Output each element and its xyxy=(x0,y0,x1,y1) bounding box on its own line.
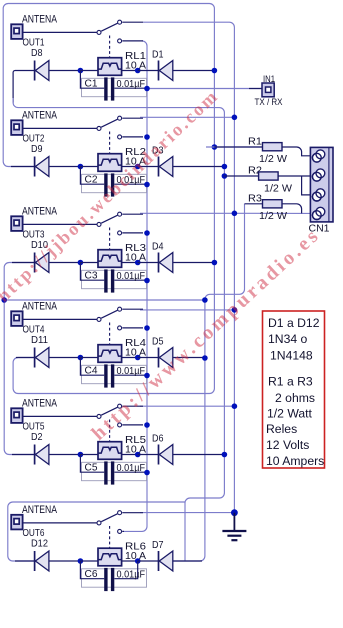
node relay coil left junction S3 xyxy=(78,260,84,266)
svg-text:1/2 W: 1/2 W xyxy=(259,153,287,165)
resistor R2 xyxy=(224,165,310,195)
svg-text:OUT4: OUT4 xyxy=(23,324,45,335)
diode D9 xyxy=(31,144,80,177)
svg-text:OUT2: OUT2 xyxy=(23,133,45,144)
capacitor C6 xyxy=(80,561,146,591)
svg-text:D7: D7 xyxy=(152,540,164,551)
node junctions on NO chain xyxy=(144,86,150,476)
switch SW2 (relay contacts) xyxy=(97,116,143,153)
connector IN1 (TX/RX) xyxy=(255,74,283,107)
svg-text:1/2 W: 1/2 W xyxy=(264,183,292,195)
capacitor C2 xyxy=(80,167,147,197)
relay RL6 coil xyxy=(80,542,146,566)
svg-text:ANTENA: ANTENA xyxy=(22,110,58,122)
svg-text:ANTENA: ANTENA xyxy=(22,206,58,218)
svg-text:0.01µF: 0.01µF xyxy=(117,366,146,377)
node junctions on bus C xyxy=(222,164,228,458)
node relay coil left junction S6 xyxy=(78,558,84,564)
wire connector OUT6 to switch pole xyxy=(23,522,97,524)
wire NC throw section 6 to bus B xyxy=(140,512,234,514)
svg-text:10 Ampers: 10 Ampers xyxy=(266,454,324,468)
svg-text:C5: C5 xyxy=(85,463,98,474)
svg-text:D1 a D12: D1 a D12 xyxy=(268,316,320,330)
node ANTENA OUT3 label xyxy=(22,206,58,241)
svg-text:D5: D5 xyxy=(152,337,164,348)
wire CN1 terminal 3 tap xyxy=(302,176,311,195)
svg-text:TX / RX: TX / RX xyxy=(255,97,283,107)
diode D4 xyxy=(138,242,215,273)
svg-text:1N34 o: 1N34 o xyxy=(268,332,308,346)
node relay coil right junction S3 xyxy=(135,260,141,266)
svg-text:0.01µF: 0.01µF xyxy=(117,569,146,580)
node ANTENA OUT6 label xyxy=(22,504,58,539)
diode D7 xyxy=(138,540,202,571)
wire top bus from D9 riser to bus A xyxy=(3,4,214,394)
svg-text:C3: C3 xyxy=(85,271,98,282)
node ANTENA OUT5 label xyxy=(22,398,58,433)
svg-text:OUT6: OUT6 xyxy=(23,528,45,539)
diode D1 xyxy=(138,50,215,81)
wire connector OUT3 to switch pole xyxy=(23,223,97,225)
svg-text:C4: C4 xyxy=(85,366,98,377)
svg-text:1/2 Watt: 1/2 Watt xyxy=(267,407,313,421)
wire D8 loop to bus C down to 185 riser xyxy=(13,71,224,562)
node relay coil right junction S1 xyxy=(135,68,141,74)
diode D5 xyxy=(138,337,205,368)
connector OUT1 xyxy=(11,24,22,39)
svg-text:C1: C1 xyxy=(85,79,98,90)
switch SW3 (relay contacts) xyxy=(97,212,143,249)
svg-text:R3: R3 xyxy=(248,192,262,204)
node ANTENA OUT1 label xyxy=(22,14,58,49)
svg-text:OUT5: OUT5 xyxy=(23,421,45,432)
node ANTENA OUT4 label xyxy=(22,301,58,336)
diode D2 xyxy=(31,432,80,465)
resistor R3 xyxy=(245,192,302,222)
svg-text:0.01µF: 0.01µF xyxy=(117,463,146,474)
wire NC throw section 4 to bus B xyxy=(140,309,234,311)
node relay coil right junction S2 xyxy=(135,164,141,170)
wire R3 feed line D down to 205 riser xyxy=(173,204,245,561)
svg-text:ANTENA: ANTENA xyxy=(22,14,58,26)
svg-text:ANTENA: ANTENA xyxy=(22,301,58,313)
svg-text:0.01µF: 0.01µF xyxy=(117,271,146,282)
svg-text:ANTENA: ANTENA xyxy=(22,398,58,410)
svg-text:1N4148: 1N4148 xyxy=(270,349,313,363)
diode D3 xyxy=(138,146,225,177)
svg-text:C6: C6 xyxy=(85,569,98,580)
svg-text:12 Volts: 12 Volts xyxy=(266,438,309,452)
wire S6 frame loop xyxy=(8,502,185,561)
relay RL3 coil xyxy=(80,243,146,267)
wire NC throw section 5 to bus B xyxy=(140,405,234,407)
node relay coil right junction S5 xyxy=(135,452,141,458)
connector CN1 xyxy=(309,147,334,234)
wire connector OUT4 to switch pole xyxy=(23,318,97,320)
svg-text:0.01µF: 0.01µF xyxy=(117,79,146,90)
node junctions on bus A xyxy=(212,68,218,266)
wire NC throw section 2 to bus B xyxy=(140,116,234,118)
svg-text:D6: D6 xyxy=(152,434,164,445)
relay RL5 coil xyxy=(80,435,146,459)
relay RL1 coil xyxy=(80,51,146,75)
svg-text:D11: D11 xyxy=(31,335,48,346)
wire connector OUT1 to switch pole xyxy=(23,31,97,33)
note box component values xyxy=(263,311,325,468)
diode D10 xyxy=(31,240,80,273)
node junctions misc xyxy=(1,297,207,361)
svg-text:OUT3: OUT3 xyxy=(23,229,45,240)
capacitor C3 xyxy=(80,263,147,293)
connector OUT5 xyxy=(11,408,22,423)
svg-text:1/2 W: 1/2 W xyxy=(259,210,287,222)
svg-text:R1 a R3: R1 a R3 xyxy=(268,375,313,389)
switch SW4 (relay contacts) xyxy=(97,307,143,344)
capacitor C5 xyxy=(80,455,147,485)
node junctions on bus B xyxy=(232,115,238,410)
node relay coil left junction S4 xyxy=(78,355,84,361)
svg-text:C2: C2 xyxy=(85,175,98,186)
switch SW1 (relay contacts) xyxy=(97,20,143,57)
diode D12 xyxy=(31,539,80,572)
wire bus B to CN1 terminal 4 xyxy=(234,212,310,214)
wire IN1 feed xyxy=(147,88,262,90)
wire bus B NC chain xyxy=(143,22,234,513)
wire connector OUT2 to switch pole xyxy=(23,127,97,129)
svg-text:D9: D9 xyxy=(31,144,43,155)
wire NO daisy chain vertical xyxy=(122,41,147,532)
relay RL4 coil xyxy=(80,338,146,362)
svg-text:2 ohms: 2 ohms xyxy=(275,391,315,405)
diode D11 xyxy=(31,335,80,368)
node relay coil left junction S1 xyxy=(78,68,84,74)
connector OUT2 xyxy=(11,120,22,135)
diode D6 xyxy=(138,434,225,465)
connector OUT4 xyxy=(11,311,22,326)
svg-text:Reles: Reles xyxy=(266,422,297,436)
node relay coil left junction S5 xyxy=(78,452,84,458)
node relay coil left junction S2 xyxy=(78,164,84,170)
diode D8 xyxy=(31,48,80,81)
svg-text:R1: R1 xyxy=(248,136,262,148)
wire connector OUT5 to switch pole xyxy=(23,415,97,417)
switch SW6 (relay contacts) xyxy=(97,511,143,548)
connector OUT3 xyxy=(11,216,22,231)
svg-text:OUT1: OUT1 xyxy=(23,37,45,48)
switch SW5 (relay contacts) xyxy=(97,404,143,441)
capacitor C4 xyxy=(80,358,147,388)
svg-text:D12: D12 xyxy=(31,539,48,550)
wire NC throw section 3 to bus B xyxy=(140,212,234,214)
capacitor C1 xyxy=(80,71,147,101)
relay RL2 coil xyxy=(80,147,146,171)
ground xyxy=(222,509,246,540)
svg-text:D1: D1 xyxy=(152,50,164,61)
node ANTENA OUT2 label xyxy=(22,110,58,145)
resistor R1 xyxy=(206,136,310,166)
node relay coil right junction S4 xyxy=(135,355,141,361)
node relay coil right junction S6 xyxy=(135,558,141,564)
svg-text:ANTENA: ANTENA xyxy=(22,504,58,516)
connector OUT6 xyxy=(11,515,22,530)
svg-text:D8: D8 xyxy=(31,48,43,59)
wire D10-D2 left loop with branch xyxy=(4,263,205,455)
svg-text:D2: D2 xyxy=(31,432,43,443)
svg-text:D4: D4 xyxy=(152,242,164,253)
